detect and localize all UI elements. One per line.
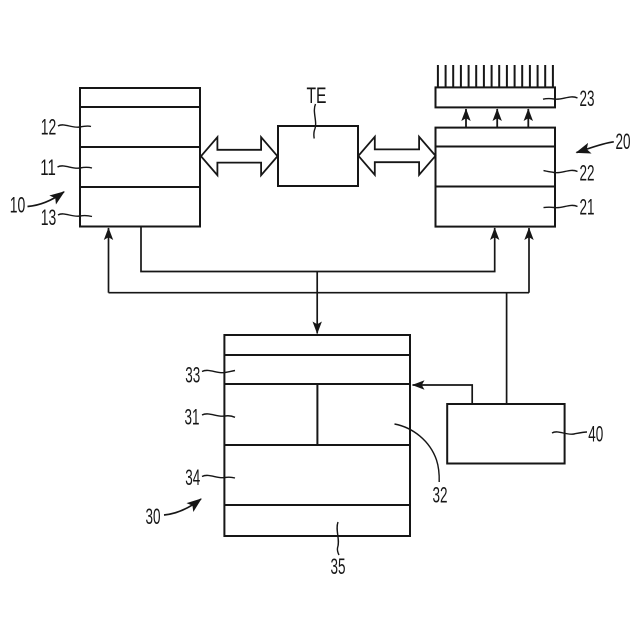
leader 33 [202, 370, 235, 372]
leader 13 [58, 214, 92, 217]
block 20 divider line 2 [436, 186, 556, 188]
svg-text:TE: TE [307, 83, 327, 108]
wire upper bus from block 10 to block 20 [141, 227, 495, 272]
wire junction drop to block 40 [506, 293, 508, 404]
leader 23 [543, 97, 578, 99]
double arrow TE-20 [358, 137, 435, 175]
leader 32 curved [395, 424, 440, 482]
block 30 outer box [224, 335, 410, 536]
leader 35 [337, 522, 339, 555]
leader 40 [552, 432, 587, 434]
svg-text:31: 31 [185, 405, 200, 430]
block 40 [447, 404, 564, 464]
bar 23 [436, 87, 556, 107]
svg-text:33: 33 [185, 363, 200, 388]
block 30 divider line 4 [224, 504, 410, 506]
arrow 20-to-23 b [496, 109, 498, 127]
block 10 outer box [80, 88, 200, 227]
leader 34 [202, 475, 235, 478]
block 30 divider line 1 [224, 354, 410, 356]
block 10 divider line 1 [80, 106, 200, 108]
leader 31 [202, 414, 235, 417]
arrow 30 [164, 499, 201, 515]
svg-text:21: 21 [580, 194, 595, 219]
block 10 divider line 3 [80, 186, 200, 188]
block 10 divider line 2 [80, 146, 200, 148]
wire arrow block 40 into block 30 [413, 385, 473, 404]
wire arrow upper bus into block 30 [316, 272, 318, 334]
svg-text:34: 34 [185, 465, 200, 490]
svg-text:30: 30 [146, 504, 161, 529]
svg-text:32: 32 [433, 483, 448, 508]
block 30 divider line 2 [224, 383, 410, 385]
svg-text:35: 35 [331, 554, 346, 579]
leader TE [314, 104, 316, 139]
arrow 20-to-23 a [465, 109, 467, 127]
arrow 10 [28, 192, 65, 207]
arrow 20 [577, 142, 614, 153]
bar 23 comb teeth [438, 65, 553, 87]
block 30 divider line 3 [224, 444, 410, 446]
wire arrow lower bus into block 10 [108, 228, 110, 293]
block TE [278, 126, 358, 186]
double arrow 10-TE [201, 137, 278, 175]
block 20 outer box [436, 128, 556, 227]
block 20 divider line 1 [436, 146, 556, 148]
svg-text:40: 40 [588, 422, 603, 447]
svg-text:23: 23 [580, 86, 595, 111]
block 30 vertical divider 31/32 [316, 384, 318, 445]
wire arrow lower bus into block 20 [528, 228, 530, 293]
svg-text:11: 11 [40, 155, 56, 180]
svg-text:12: 12 [41, 115, 57, 140]
leader 12 [58, 125, 91, 127]
svg-text:20: 20 [616, 129, 631, 154]
svg-text:13: 13 [41, 205, 57, 230]
leader 21 [544, 205, 578, 207]
wire lower bus horizontal [109, 292, 530, 294]
leader 22 [544, 170, 578, 172]
svg-text:10: 10 [10, 193, 26, 218]
leader 11 [58, 166, 93, 168]
svg-text:22: 22 [580, 161, 595, 186]
arrow 20-to-23 c [527, 109, 529, 127]
